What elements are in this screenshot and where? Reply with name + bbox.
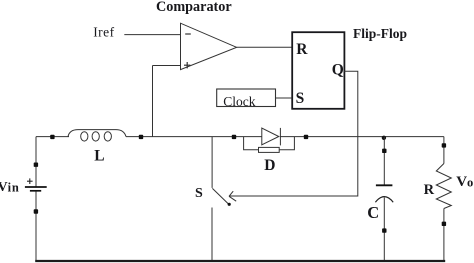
node resistor top	[442, 143, 446, 147]
svg-text:Comparator: Comparator	[156, 0, 232, 15]
wire top rail left segment	[36, 136, 69, 138]
svg-text:Vo: Vo	[456, 174, 473, 190]
inductor L1 coil	[68, 130, 126, 141]
svg-text:S: S	[195, 186, 203, 201]
wire clock to flip-flop S input	[276, 97, 292, 99]
wire current-sense vertical down to top rail	[152, 66, 154, 137]
svg-text:R: R	[296, 41, 308, 58]
node battery bottom	[34, 209, 38, 213]
battery Vin long plate	[25, 186, 47, 188]
resistor R1 top lead	[443, 137, 445, 164]
wire top rail diode to right corner	[280, 136, 444, 138]
battery Vin short plate	[30, 190, 41, 192]
node on top rail right of inductor	[139, 135, 143, 139]
svg-text:D: D	[264, 157, 275, 174]
node on top rail left of diode	[232, 135, 236, 139]
wire Q output to switch control	[230, 71, 358, 196]
node battery top	[34, 163, 38, 167]
switch S upper leg	[211, 137, 213, 188]
wire Iref to comparator inverting input	[124, 34, 180, 36]
junction dot capacitor tap	[382, 136, 386, 140]
wire top rail inductor to diode	[126, 136, 262, 138]
switch blade end dot	[228, 203, 231, 206]
svg-text:Flip-Flop: Flip-Flop	[353, 26, 407, 41]
svg-text:Q: Q	[332, 61, 344, 78]
svg-text:Clock: Clock	[223, 94, 255, 109]
svg-text:Vin: Vin	[0, 180, 20, 195]
capacitor C1 flat plate	[376, 184, 393, 186]
node on top rail left of inductor	[50, 135, 54, 139]
capacitor C1 bottom lead	[383, 197, 385, 260]
op-amp U1 comparator triangle	[181, 23, 237, 69]
resistor R1 bottom lead	[443, 209, 445, 261]
node capacitor bottom	[382, 228, 386, 232]
capacitor C1 top lead	[383, 137, 385, 185]
battery Vin plus sign	[27, 178, 33, 184]
node on top rail right of diode	[304, 135, 308, 139]
clock box	[217, 89, 276, 107]
wire left rail battery to bottom corner	[35, 192, 37, 261]
wire bottom rail	[35, 260, 445, 262]
resistor R1 zigzag	[436, 164, 451, 209]
comparator minus pin mark	[185, 33, 191, 35]
wire comparator output to flip-flop R input	[237, 46, 292, 48]
svg-text:Iref: Iref	[93, 24, 114, 39]
node capacitor top	[382, 149, 386, 153]
node resistor bottom	[442, 222, 446, 226]
capacitor C1 curved plate	[375, 197, 393, 203]
diode D1	[262, 128, 281, 145]
arrowhead on switch control	[229, 191, 236, 201]
svg-text:R: R	[424, 182, 435, 198]
svg-text:L: L	[94, 148, 104, 165]
svg-text:C: C	[367, 203, 379, 222]
wire left rail from top corner down to battery	[35, 137, 37, 187]
comparator plus pin mark	[184, 62, 190, 68]
svg-text:S: S	[296, 90, 305, 107]
flip-flop U2 box	[292, 32, 344, 109]
switch S blade	[212, 188, 229, 204]
diode parallel branch with box	[244, 137, 295, 153]
switch S lower leg	[211, 208, 213, 261]
wire comparator non-inverting input from sense node	[153, 65, 181, 67]
